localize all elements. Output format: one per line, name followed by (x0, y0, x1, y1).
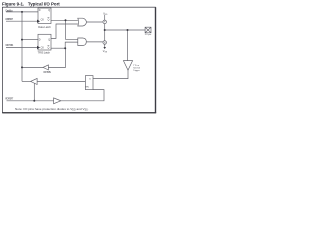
arrowhead WR PORT clock (37, 20, 40, 23)
data latch box U1 (38, 8, 51, 24)
svg-text:Q: Q (48, 38, 50, 41)
wire WR TRIS to TRIS latch CK (6, 47, 37, 49)
svg-text:RD PORT: RD PORT (5, 97, 13, 100)
wire node to I/O pin (105, 29, 145, 31)
svg-text:TRIS Latch: TRIS Latch (38, 51, 51, 55)
transistor Q1 P-channel circle (103, 20, 107, 24)
transistor Q2 N-channel circle (103, 41, 107, 45)
node dot pin drop junction (127, 29, 129, 31)
frame border (2, 7, 155, 113)
wire data bus horizontal (6, 11, 38, 13)
node dot output node junction (104, 29, 106, 31)
wire pin drop to input buffer (127, 30, 129, 61)
svg-text:WR PORT: WR PORT (5, 18, 13, 21)
buffer U7 RD PORT driver (54, 98, 61, 104)
wire VSS stub (104, 44, 106, 47)
wire RD PORT buffer output to data bus (22, 80, 31, 82)
wire TRIS latch D input from data bus (22, 39, 38, 41)
node dot RD PORT enable junction (33, 100, 35, 102)
wire data bus vertical (21, 12, 23, 82)
wire TRIS latch Qbar output (51, 47, 66, 49)
wire RD PORT buffer enable (33, 83, 35, 100)
svg-text:CK: CK (41, 46, 45, 49)
wire VDD stub (104, 15, 106, 20)
TRIS latch box U2 (38, 34, 51, 50)
node dot TRIS D junction (21, 39, 23, 41)
svg-text:WR TRIS: WR TRIS (5, 44, 13, 47)
node dot data bus junction (21, 11, 23, 13)
svg-text:Data Bus: Data Bus (6, 9, 14, 12)
wire RD PORT line to EN riser (61, 90, 104, 101)
svg-text:D: D (39, 38, 41, 41)
arrowhead VSS (103, 47, 106, 49)
wire data latch Qbar to OR gate input 1 (51, 19, 78, 21)
svg-text:Q: Q (48, 19, 50, 22)
svg-text:Q: Q (48, 9, 50, 12)
and-gate G2 body (78, 38, 87, 46)
wire AND output to N transistor gate (86, 41, 103, 43)
svg-text:Figure 9-1. Typical I/O Port: Figure 9-1. Typical I/O Port (2, 1, 60, 6)
read latch box U4 (85, 76, 93, 90)
input buffer U3 triangle TTL/Schmitt (123, 61, 132, 71)
tri-state buffer U6 RD TRIS (43, 65, 48, 70)
svg-text:Note: I/O pins have protection: Note: I/O pins have protection diodes to… (15, 107, 89, 111)
svg-text:I/O pin: I/O pin (145, 34, 152, 36)
wire RD PORT line (7, 100, 54, 102)
or-gate G1 body (78, 18, 87, 26)
svg-text:Trigger: Trigger (133, 70, 140, 72)
svg-text:RD TRIS: RD TRIS (44, 71, 52, 74)
wire TRIS latch Q to OR gate input 2 (51, 24, 78, 38)
I/O pin symbol (145, 27, 151, 33)
svg-text:D: D (39, 9, 41, 12)
arrowhead WR TRIS clock (37, 46, 40, 49)
wire read latch Q to RD PORT buffer (37, 80, 85, 82)
wire WR PORT to data latch CK (6, 20, 37, 22)
wire riser to AND gate input 2 (65, 42, 78, 48)
svg-text:Q: Q (48, 46, 50, 49)
node dot TRIS Qbar junction (64, 47, 66, 49)
svg-text:CK: CK (41, 19, 45, 22)
wire OR output to P transistor gate (87, 21, 103, 23)
wire buffer output to read latch D (93, 70, 128, 78)
svg-text:EN: EN (86, 86, 89, 88)
svg-text:Data Latch: Data Latch (38, 25, 51, 29)
node dot RD TRIS output junction (21, 66, 23, 68)
tri-state buffer U5 RD PORT (31, 78, 37, 84)
wire drop to RD TRIS buffer input (48, 48, 65, 67)
wire node A drop to AND gate input 1 (66, 20, 78, 39)
node dot data latch Qbar junction (65, 19, 67, 21)
wire output node vertical (104, 24, 106, 41)
wire RD TRIS buffer output to data bus (22, 66, 43, 68)
